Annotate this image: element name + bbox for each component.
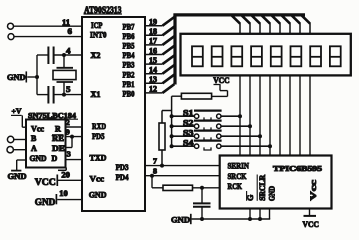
svg-text:PB6: PB6 [123, 31, 135, 41]
svg-text:GND: GND [171, 215, 190, 225]
svg-text:ICP: ICP [91, 20, 103, 30]
svg-text:PB5: PB5 [123, 41, 135, 51]
svg-text:13: 13 [149, 75, 157, 84]
svg-text:Vcc: Vcc [308, 180, 318, 201]
svg-text:TPIC6B595: TPIC6B595 [273, 164, 322, 173]
svg-text:G: G [246, 195, 255, 201]
svg-text:PB7: PB7 [123, 21, 136, 31]
svg-text:PD5: PD5 [92, 131, 105, 141]
svg-text:+V: +V [12, 107, 23, 116]
svg-text:SRCK: SRCK [228, 171, 247, 181]
svg-text:DE: DE [52, 144, 65, 153]
svg-text:7: 7 [153, 156, 157, 165]
svg-text:INT0: INT0 [90, 30, 107, 40]
svg-text:11: 11 [62, 18, 70, 27]
svg-text:GND: GND [8, 172, 27, 181]
svg-text:X1: X1 [91, 89, 101, 99]
svg-text:PB1: PB1 [123, 79, 135, 89]
svg-text:19: 19 [149, 18, 157, 27]
svg-text:B: B [31, 134, 37, 143]
svg-text:GND: GND [89, 190, 107, 200]
svg-text:SRCLR: SRCLR [258, 175, 267, 201]
svg-text:Vcc: Vcc [90, 174, 105, 184]
svg-text:5: 5 [66, 85, 71, 94]
svg-text:GND: GND [7, 72, 26, 82]
svg-text:GND: GND [267, 186, 276, 201]
svg-text:GND: GND [35, 197, 56, 207]
svg-text:TXD: TXD [90, 153, 107, 163]
svg-text:9: 9 [66, 128, 70, 137]
svg-text:VCC: VCC [35, 177, 56, 187]
svg-text:A: A [31, 144, 37, 153]
svg-text:GND: GND [30, 154, 47, 163]
svg-text:D: D [52, 154, 58, 163]
svg-text:R: R [55, 125, 61, 134]
svg-text:Vcc: Vcc [31, 125, 44, 134]
svg-text:SERIN: SERIN [228, 160, 250, 170]
svg-text:PB0: PB0 [123, 89, 135, 99]
svg-text:17: 17 [149, 37, 157, 46]
svg-text:6: 6 [68, 27, 73, 36]
svg-text:4: 4 [66, 47, 71, 56]
svg-text:PB4: PB4 [123, 50, 136, 60]
svg-text:12: 12 [149, 85, 157, 94]
svg-text:18: 18 [149, 27, 157, 36]
svg-text:PB2: PB2 [123, 69, 135, 79]
svg-text:VCC: VCC [303, 219, 320, 229]
svg-text:8: 8 [153, 166, 157, 175]
svg-text:AT90S2313: AT90S2313 [84, 5, 122, 15]
svg-text:PD3: PD3 [116, 162, 129, 172]
svg-text:15: 15 [149, 56, 157, 65]
svg-text:16: 16 [149, 46, 157, 55]
svg-text:3: 3 [67, 149, 71, 158]
svg-text:14: 14 [149, 66, 157, 75]
svg-text:RCK: RCK [228, 181, 243, 191]
svg-text:PD4: PD4 [116, 172, 130, 182]
svg-text:PB3: PB3 [123, 60, 135, 70]
svg-text:VCC: VCC [213, 76, 230, 85]
svg-text:RE: RE [52, 134, 64, 143]
svg-text:10: 10 [59, 189, 68, 198]
svg-text:RXD: RXD [92, 121, 106, 131]
svg-text:2: 2 [66, 118, 70, 127]
svg-text:X2: X2 [91, 50, 101, 60]
svg-text:20: 20 [61, 170, 70, 179]
